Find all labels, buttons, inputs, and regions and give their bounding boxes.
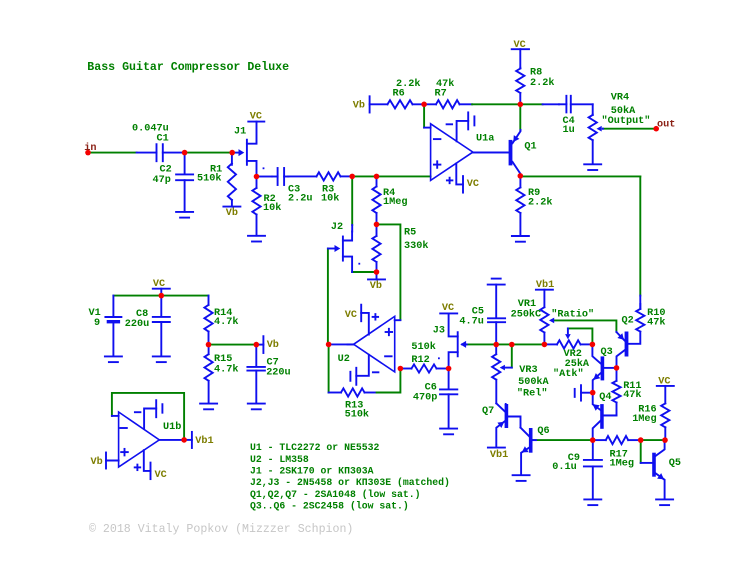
svg-text:Q5: Q5 <box>669 458 681 469</box>
capacitor C6 470p <box>448 369 450 390</box>
wire node to C4 <box>520 103 542 105</box>
wire U2 feedback down <box>328 344 330 392</box>
wire node to J2 drain <box>351 176 353 225</box>
JFET J3 mirrored <box>457 332 459 356</box>
svg-text:R15: R15 <box>214 354 232 365</box>
port Vb1 above VR1 <box>536 289 553 291</box>
resistor R2 10k <box>256 177 258 188</box>
wire R17 to Q5 base node <box>628 439 641 441</box>
port VC above J1 <box>248 121 264 123</box>
svg-text:U2 - LM358: U2 - LM358 <box>250 454 309 465</box>
resistor R9 2.2k <box>519 176 521 188</box>
resistor R17 1Meg <box>606 436 628 444</box>
transistor Q1 PNP <box>509 140 513 166</box>
port Vb right of R15 node <box>262 336 264 353</box>
transistor Q5 NPN <box>652 453 656 477</box>
ground under C9 <box>584 498 601 500</box>
svg-text:2.2k: 2.2k <box>396 78 420 90</box>
transistor Q7 PNP <box>505 404 509 428</box>
wire U2 output <box>329 343 354 345</box>
op-amp U1b triangle <box>119 412 160 467</box>
potentiometer VR1 250kC Ratio <box>540 307 548 332</box>
resistor R3 10k <box>317 172 341 180</box>
svg-text:330k: 330k <box>404 240 428 252</box>
port Vb at R6 <box>369 96 371 112</box>
ground under C2 <box>176 211 193 213</box>
wire C3 lead <box>288 175 317 177</box>
wire bottom row to Q6 base <box>532 439 593 441</box>
svg-text:10k: 10k <box>263 202 281 214</box>
port Vb under R1 <box>223 206 240 208</box>
U1a positive supply marker VC <box>456 164 463 185</box>
svg-text:4.7u: 4.7u <box>459 317 483 328</box>
wire VR2 wiper loop <box>568 328 593 344</box>
capacitor C8 220u <box>160 296 162 317</box>
svg-text:J1: J1 <box>234 127 246 138</box>
potentiometer VR3 500kA Rel <box>495 345 497 355</box>
svg-text:220u: 220u <box>125 319 149 330</box>
port Vb under J2 R5 <box>368 278 385 280</box>
svg-text:"Ratio": "Ratio" <box>551 309 594 321</box>
svg-text:Q3..Q6 - 2SC2458 (low sat.): Q3..Q6 - 2SC2458 (low sat.) <box>250 500 409 511</box>
svg-text:10k: 10k <box>321 193 339 205</box>
wire in to C1 <box>89 152 137 154</box>
svg-text:"Rel": "Rel" <box>517 387 548 399</box>
resistor R14 4.7k <box>208 296 210 305</box>
resistor R16 1Meg <box>661 403 669 427</box>
svg-text:1Meg: 1Meg <box>632 414 656 425</box>
svg-text:"Output": "Output" <box>602 115 651 127</box>
svg-text:Vb1: Vb1 <box>490 449 508 461</box>
svg-text:2.2k: 2.2k <box>530 77 554 89</box>
svg-text:J3: J3 <box>433 326 445 337</box>
op-amp U1a output wire <box>473 151 509 153</box>
svg-text:© 2018 Vitaly Popkov (Mizzzer: © 2018 Vitaly Popkov (Mizzzer Schpion) <box>89 523 353 536</box>
svg-text:VR4: VR4 <box>611 92 629 103</box>
JFET J2 <box>342 237 344 261</box>
svg-text:2.2u: 2.2u <box>288 194 312 205</box>
transistor Q6 NPN <box>529 428 533 453</box>
svg-text:Q2: Q2 <box>622 316 634 327</box>
svg-text:Vb: Vb <box>353 100 365 112</box>
wire U1a inv feedback <box>423 104 425 127</box>
svg-text:47k: 47k <box>647 317 665 329</box>
wire VC rail C8 V1 <box>113 295 208 297</box>
resistor R15 4.7k <box>208 345 210 355</box>
potentiometer VR4 50kA Output <box>592 114 594 116</box>
wire R3 to U1a plus input <box>341 175 353 177</box>
ground under C6 <box>440 428 457 430</box>
port VC above R16 <box>657 385 674 387</box>
battery V1 9V <box>112 296 114 317</box>
port VC above R8 <box>512 48 529 50</box>
resistor R7 47k <box>436 100 460 108</box>
port Vb at U1b plus input <box>105 453 107 469</box>
svg-text:Q1,Q2,Q7 - 2SA1048 (low sat.): Q1,Q2,Q7 - 2SA1048 (low sat.) <box>250 489 421 500</box>
ground under R9 <box>512 235 529 237</box>
U1b positive supply marker VC <box>144 450 151 471</box>
capacitor C1 0.047u <box>137 152 157 154</box>
svg-text:U1a: U1a <box>476 133 494 144</box>
capacitor C2 47p <box>184 153 186 174</box>
svg-text:250kC: 250kC <box>511 308 542 320</box>
svg-text:510k: 510k <box>411 341 435 353</box>
ground under Q5 <box>656 498 673 500</box>
svg-text:47k: 47k <box>436 78 454 90</box>
capacitor C4 1u <box>559 103 566 105</box>
capacitor C7 220u <box>255 345 257 367</box>
port in (node) <box>85 150 91 156</box>
svg-text:Q7: Q7 <box>482 406 494 417</box>
svg-text:2.2k: 2.2k <box>528 197 552 209</box>
wire R6-R7 node <box>413 103 437 105</box>
ground under R2 <box>248 235 265 237</box>
svg-text:4.7k: 4.7k <box>214 364 238 376</box>
inverted ground above C5 <box>492 278 501 280</box>
svg-text:VC: VC <box>658 377 670 388</box>
svg-text:C1: C1 <box>157 134 169 145</box>
svg-text:R8: R8 <box>530 68 542 79</box>
svg-text:R12: R12 <box>411 355 429 366</box>
svg-text:4.7k: 4.7k <box>214 316 238 328</box>
svg-text:VC: VC <box>345 310 357 321</box>
svg-text:VC: VC <box>155 470 167 481</box>
wire Q5 base drop <box>640 440 642 463</box>
svg-text:VR1: VR1 <box>518 299 536 310</box>
svg-text:500kA: 500kA <box>518 376 549 388</box>
U1b negative supply marker <box>144 409 156 429</box>
U2 negative supply marker <box>356 355 369 376</box>
svg-text:J1 - 2SK170 or КП303А: J1 - 2SK170 or КП303А <box>250 466 374 477</box>
svg-text:47p: 47p <box>153 175 171 186</box>
svg-text:"Atk": "Atk" <box>553 368 584 380</box>
resistor R4 1Meg <box>376 176 378 186</box>
ground under V1 <box>105 355 122 357</box>
svg-text:Bass Guitar Compressor Deluxe: Bass Guitar Compressor Deluxe <box>87 61 289 74</box>
svg-text:Q1: Q1 <box>524 142 536 153</box>
svg-text:470p: 470p <box>413 392 437 403</box>
potentiometer VR2 25kA Atk <box>557 340 581 348</box>
resistor R1 510k <box>231 153 233 165</box>
svg-text:Vb: Vb <box>91 456 103 468</box>
ground under R15 <box>200 403 217 405</box>
wire sidechain row <box>467 343 545 345</box>
ground under C8 <box>153 355 170 357</box>
svg-text:Q4: Q4 <box>599 392 611 403</box>
port Vb1 under Q7 <box>488 447 505 449</box>
svg-text:J2,J3 - 2N5458 or КП303Е (matc: J2,J3 - 2N5458 or КП303Е (matched) <box>250 477 450 488</box>
port Vb1 at U1b output <box>191 432 193 448</box>
port VC above C8 <box>153 288 170 290</box>
svg-text:U1b: U1b <box>163 421 181 433</box>
wire R7 to R8 node <box>460 103 473 105</box>
op-amp U1a triangle <box>431 124 473 181</box>
svg-text:1Meg: 1Meg <box>383 197 407 208</box>
wire C1 to J1 gate <box>185 152 233 154</box>
svg-text:Q3: Q3 <box>601 347 613 358</box>
resistor R12 510k <box>412 364 437 372</box>
wire down to R10 <box>639 176 641 295</box>
svg-text:U2: U2 <box>338 354 350 365</box>
op-amp U2 triangle mirrored <box>354 316 395 372</box>
svg-text:Vb1: Vb1 <box>536 279 554 291</box>
wire R4-R5 node to U2 plus <box>377 224 401 320</box>
wire VR1 wiper to Q2 <box>554 320 616 331</box>
svg-text:out: out <box>657 120 675 131</box>
ground under C7 <box>248 403 265 405</box>
supply marker at Q4 base node <box>574 389 576 397</box>
resistor R13 510k <box>341 388 365 396</box>
wire Q1 emitter <box>519 104 521 130</box>
wire J2 source to Vb node <box>352 271 376 273</box>
ground under Q6 <box>513 474 530 476</box>
svg-text:0.1u: 0.1u <box>552 462 576 473</box>
capacitor C3 2.2u <box>272 176 278 178</box>
wire VR3 wiper <box>511 345 513 368</box>
capacitor C9 0.1u <box>592 440 594 459</box>
svg-text:9: 9 <box>94 318 100 329</box>
svg-text:VC: VC <box>514 40 526 51</box>
wire VR2 right to node <box>581 343 593 345</box>
resistor R11 47k <box>616 368 618 381</box>
wire R13 to R12 node <box>365 392 377 394</box>
resistor R6 2.2k <box>388 100 413 108</box>
resistor R8 2.2k <box>519 67 521 70</box>
svg-text:Vb: Vb <box>370 280 382 292</box>
ground under VR4 <box>584 163 601 165</box>
svg-text:C2: C2 <box>160 164 172 175</box>
transistor Q2 PNP <box>625 332 629 357</box>
wire to R13 <box>329 392 341 394</box>
wire Q1 collector row <box>520 175 640 177</box>
U2 positive supply marker VC <box>361 313 369 335</box>
transistor Q4 NPN flipped <box>600 404 604 429</box>
svg-text:Vb1: Vb1 <box>195 435 213 447</box>
wire U1b feedback loop <box>112 393 184 440</box>
svg-text:U1 - TLC2272 or NE5532: U1 - TLC2272 or NE5532 <box>250 442 379 453</box>
wire U1b output <box>159 439 184 441</box>
svg-text:in: in <box>84 142 96 154</box>
wire Vb node R15 <box>209 344 257 346</box>
transistor Q3 NPN mirrored <box>601 356 605 380</box>
wire J1 source to C3 <box>259 176 272 178</box>
resistor R10 47k <box>639 304 641 309</box>
svg-text:510k: 510k <box>197 172 221 184</box>
svg-text:510k: 510k <box>345 408 369 420</box>
port VC above J3 <box>440 312 457 314</box>
svg-text:1u: 1u <box>563 125 575 136</box>
svg-text:47k: 47k <box>623 389 641 401</box>
U1a negative supply marker <box>457 121 469 141</box>
capacitor C5 4.7u <box>495 285 497 318</box>
svg-text:VC: VC <box>467 179 479 190</box>
wire J2 gate loop <box>327 249 329 345</box>
svg-text:Vb: Vb <box>226 207 238 219</box>
JFET J1 with VC port <box>246 140 248 165</box>
svg-text:J2: J2 <box>331 222 343 233</box>
wire VR4 wiper to out <box>603 128 656 130</box>
svg-text:Vb: Vb <box>267 339 279 351</box>
port out (node) <box>653 126 659 132</box>
svg-text:R5: R5 <box>404 228 416 239</box>
svg-text:220u: 220u <box>266 368 290 379</box>
svg-text:1Meg: 1Meg <box>610 458 634 469</box>
resistor R5 330k <box>376 224 378 236</box>
svg-text:Q6: Q6 <box>537 426 549 437</box>
svg-text:VR3: VR3 <box>519 365 537 376</box>
svg-text:VC: VC <box>153 279 165 290</box>
junction dots <box>182 150 188 156</box>
